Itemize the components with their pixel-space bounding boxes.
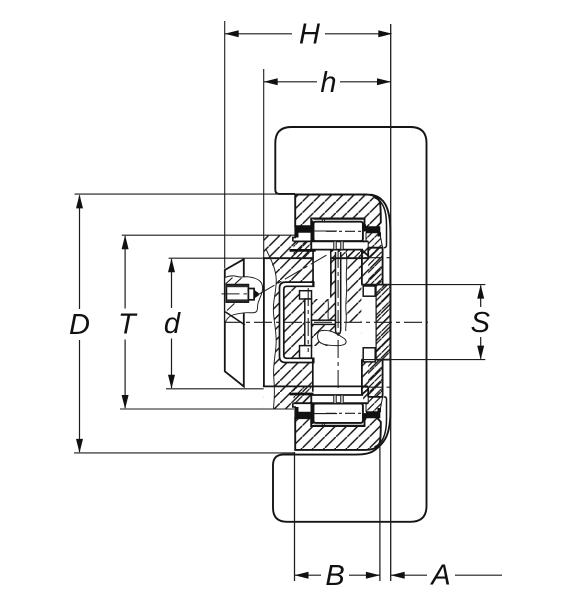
svg-text:B: B (325, 560, 344, 592)
svg-text:S: S (471, 307, 491, 339)
svg-text:T: T (118, 309, 138, 341)
svg-text:A: A (429, 560, 450, 592)
svg-text:D: D (69, 309, 90, 341)
svg-text:h: h (320, 67, 336, 99)
svg-text:d: d (164, 308, 181, 340)
svg-text:H: H (299, 19, 320, 51)
